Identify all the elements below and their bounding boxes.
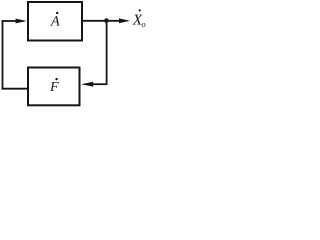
wire: down to block F input bbox=[92, 83, 108, 85]
arrowhead to output label bbox=[119, 18, 130, 23]
wire: output of block A to junction and beyond bbox=[83, 20, 121, 22]
svg-text:F: F bbox=[49, 79, 59, 94]
wire: feedback up the left side bbox=[2, 20, 4, 89]
wire: block F output to the left bbox=[2, 88, 28, 90]
junction node bbox=[104, 18, 109, 23]
label X-dot sub o (output) bbox=[132, 9, 147, 29]
label F-dot bbox=[49, 78, 59, 94]
wire: input into block A bbox=[2, 20, 18, 22]
label A-dot bbox=[50, 12, 60, 30]
wire: junction down right side bbox=[106, 21, 108, 85]
svg-text:A: A bbox=[50, 14, 60, 30]
block F (feedback element) bbox=[28, 68, 80, 106]
block A (forward element) bbox=[28, 2, 82, 41]
arrowhead into block F bbox=[81, 82, 93, 87]
arrowhead into block A bbox=[16, 19, 27, 24]
svg-text:o: o bbox=[141, 19, 146, 29]
